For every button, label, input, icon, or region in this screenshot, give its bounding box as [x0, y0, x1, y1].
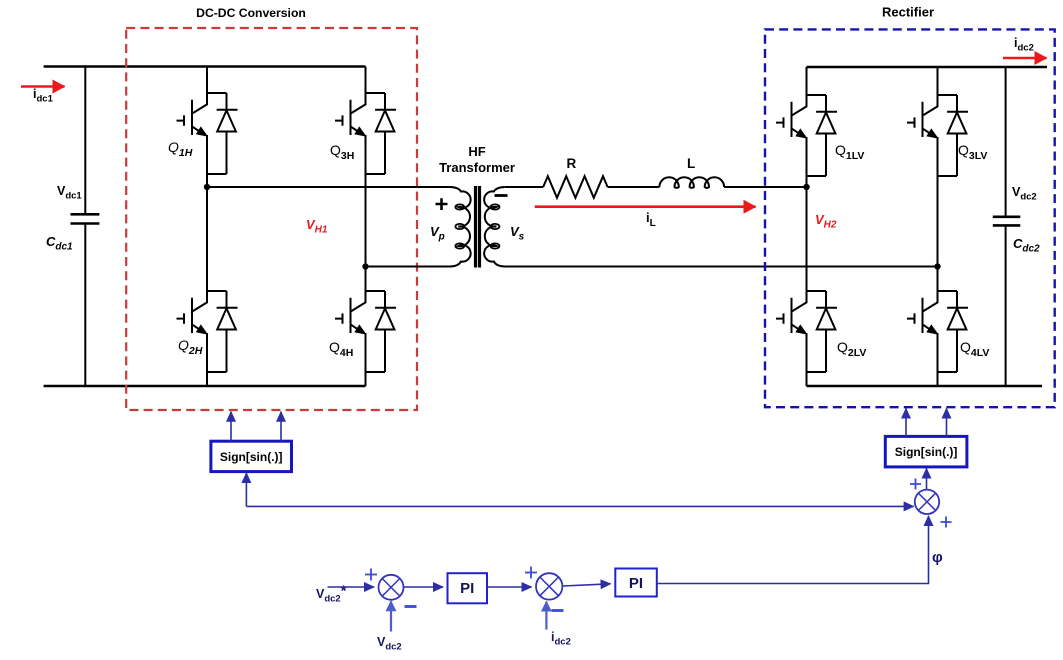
transformer core bar 2	[478, 186, 481, 268]
svg-text:Sign[sin(.)]: Sign[sin(.)]	[220, 450, 283, 464]
svg-text:Vdc2: Vdc2	[377, 635, 402, 653]
multiplier junction circle	[915, 490, 939, 514]
svg-text:Cdc2: Cdc2	[1013, 236, 1040, 255]
svg-text:Q1LV: Q1LV	[835, 142, 864, 162]
block PI 1	[448, 573, 488, 603]
svg-text:φ: φ	[932, 549, 943, 566]
wire left bridge leg 2	[365, 67, 367, 387]
wire resistor to inductor	[608, 186, 660, 188]
svg-text:idc2: idc2	[551, 630, 571, 648]
node rectifier input B (junction dot)	[934, 263, 940, 269]
plus sign summer2	[525, 567, 537, 579]
current arrow i_dc1	[21, 85, 65, 87]
svg-text:Q3LV: Q3LV	[958, 142, 987, 162]
block PI 2	[615, 569, 657, 597]
transformer primary loop 2	[455, 224, 464, 229]
gate signal arrow right 1	[905, 409, 907, 437]
node rectifier input A (junction dot)	[803, 184, 809, 190]
capacitor Cdc1 plates	[71, 214, 100, 223]
svg-text:VH1: VH1	[306, 217, 328, 236]
wire PI1 to summer2	[487, 586, 532, 588]
wire top rail right bridge	[807, 66, 1048, 68]
svg-text:R: R	[567, 156, 577, 171]
svg-text:DC-DC Conversion: DC-DC Conversion	[196, 6, 306, 20]
transformer primary loop 3	[455, 243, 464, 248]
wire inductor to rectifier	[724, 186, 806, 188]
minus sign summer2	[552, 609, 564, 612]
wire bottom rail left bridge	[44, 385, 366, 387]
plus sign multiplier top	[910, 479, 921, 490]
svg-text:L: L	[687, 156, 695, 171]
capacitor Cdc2 plates	[993, 217, 1021, 226]
wire PI2 to multiplier (phi)	[657, 516, 929, 584]
resistor R	[543, 176, 607, 198]
wire top rail left bridge	[44, 65, 366, 67]
block Sign[sin(.)] right	[885, 436, 967, 467]
wire right bridge leg 2	[937, 67, 939, 386]
block Sign[sin(.)] left	[211, 441, 292, 471]
svg-text:idc1: idc1	[33, 87, 54, 105]
transformer secondary winding	[484, 187, 937, 267]
transistor Q3H	[335, 93, 396, 174]
wire left bridge leg 1	[206, 67, 208, 387]
wire multiplier to sign2	[926, 469, 928, 490]
feedback arrow Vdc2	[390, 601, 392, 631]
transistor Q4LV	[907, 291, 968, 372]
svg-text:Q3H: Q3H	[330, 142, 354, 162]
summer 1 circle	[379, 575, 404, 600]
transformer plus mark	[436, 198, 448, 210]
wire sign1 input vertical	[245, 473, 247, 506]
wire bottom rail right bridge	[807, 385, 1043, 387]
wire summer1 to PI1	[404, 586, 444, 588]
current arrow i_dc2	[1003, 57, 1047, 59]
svg-text:Transformer: Transformer	[439, 160, 515, 175]
transistor Q1H	[177, 93, 238, 174]
inductor L	[659, 177, 724, 188]
svg-text:Vdc1: Vdc1	[57, 184, 82, 202]
capacitor Cdc2 branch wire	[1005, 67, 1007, 386]
transistor Q3LV	[907, 95, 968, 176]
transistor Q1LV	[776, 95, 837, 176]
transistor Q2LV	[776, 291, 837, 372]
svg-text:Vs: Vs	[510, 224, 525, 243]
feedback arrow idc2	[545, 602, 547, 630]
gate signal arrow right 2	[946, 409, 948, 437]
transformer primary winding	[207, 187, 471, 267]
node bridge1 output B (junction dot)	[362, 263, 368, 269]
dashed box Rectifier	[765, 29, 1055, 407]
svg-text:PI: PI	[460, 580, 474, 597]
transformer core bar 1	[474, 186, 477, 268]
plus sign summer1	[365, 569, 377, 581]
plus sign multiplier bottom	[941, 517, 952, 528]
wire secondary top to resistor	[505, 186, 543, 188]
capacitor Cdc1 branch wire	[84, 67, 86, 387]
summer 2 circle	[536, 573, 562, 599]
node bridge1 output A (junction dot)	[204, 184, 210, 190]
svg-text:VH2: VH2	[815, 212, 837, 231]
minus sign summer1	[405, 605, 417, 608]
transformer minus mark	[495, 194, 508, 197]
svg-text:Q4H: Q4H	[329, 339, 353, 359]
svg-text:idc2: idc2	[1014, 36, 1034, 54]
transformer secondary loop 1	[491, 204, 500, 209]
svg-text:Cdc1: Cdc1	[46, 234, 73, 253]
dashed box DC-DC Conversion	[126, 28, 417, 410]
svg-text:Q4LV: Q4LV	[960, 339, 989, 359]
transistor Q4H	[335, 291, 396, 372]
svg-text:Q1H: Q1H	[168, 139, 193, 159]
transformer primary loop 1	[455, 204, 464, 209]
svg-text:PI: PI	[629, 575, 643, 592]
svg-text:Sign[sin(.)]: Sign[sin(.)]	[895, 445, 958, 459]
wire right bridge leg 1	[806, 67, 808, 386]
svg-text:Vdc2: Vdc2	[1012, 185, 1037, 203]
gate signal arrow left 1	[230, 412, 232, 441]
wire input to summer 1	[328, 586, 375, 588]
transformer secondary loop 3	[491, 243, 500, 248]
svg-text:Q2LV: Q2LV	[837, 339, 866, 359]
wire sign1 to multiplier horizontal	[246, 505, 913, 507]
wire summer2 to PI2	[563, 584, 611, 586]
svg-text:iL: iL	[646, 210, 656, 229]
svg-text:Q2H: Q2H	[178, 337, 203, 357]
svg-text:HF: HF	[468, 144, 485, 159]
svg-text:Vp: Vp	[430, 224, 445, 243]
transformer secondary loop 2	[491, 224, 500, 229]
gate signal arrow left 2	[280, 412, 282, 441]
svg-text:Rectifier: Rectifier	[882, 5, 934, 20]
current arrow iL	[535, 205, 756, 208]
transistor Q2H	[177, 291, 238, 372]
